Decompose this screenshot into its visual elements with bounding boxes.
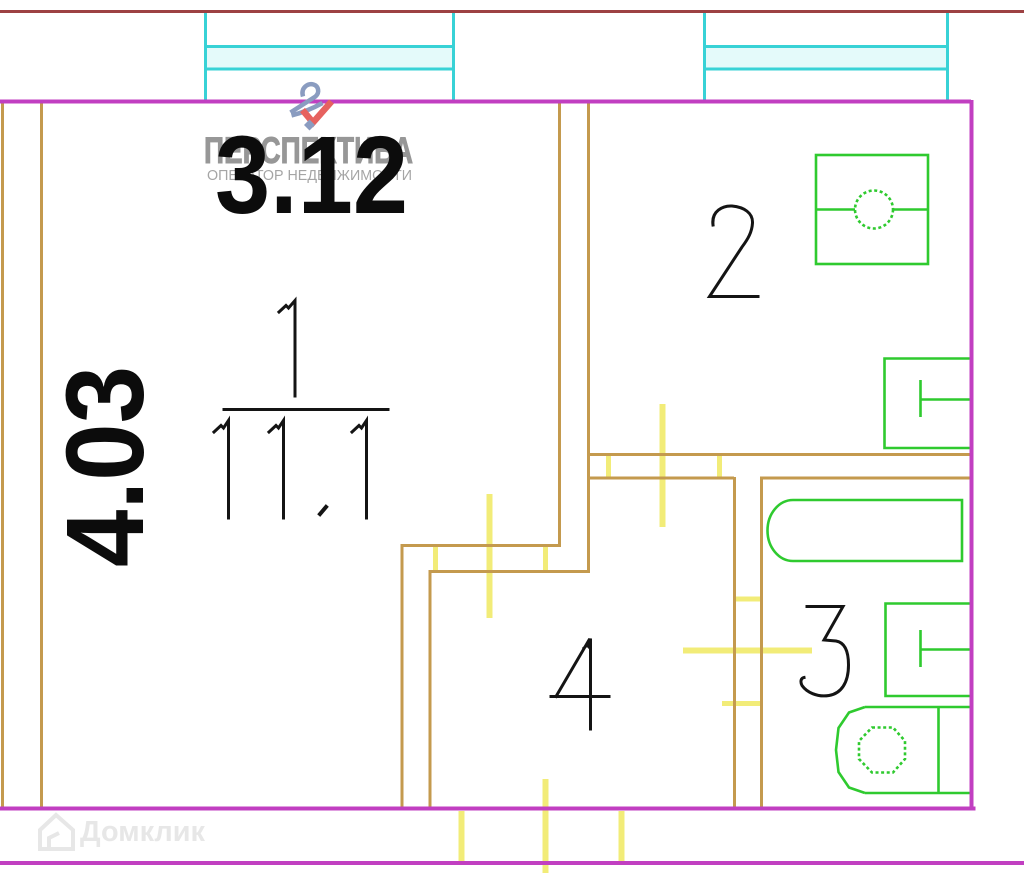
window1 glass fill [206, 48, 453, 68]
window1 pane line upper [205, 45, 454, 48]
door leaf kitchen [660, 404, 666, 527]
building bottom line [0, 861, 1024, 865]
stove burner circle [855, 191, 893, 229]
kitchen sink faucet [921, 380, 973, 417]
entrance tick left [459, 811, 465, 863]
room1-hall wall lower line [429, 570, 590, 573]
svg-text:Домклик: Домклик [80, 816, 205, 848]
node room4 numeral 4 [551, 639, 609, 730]
room number digits [214, 206, 849, 729]
kitchen bottom wall lower line left [587, 477, 734, 480]
svg-text:4.03: 4.03 [44, 366, 167, 567]
entrance leaf [543, 779, 549, 873]
stove square [816, 155, 928, 264]
apartment top wall [0, 100, 971, 104]
node room1 numeral 1 [279, 301, 295, 397]
interior tan walls [3, 103, 971, 810]
hall left wall inner line [429, 570, 432, 810]
window1 left jamb [204, 13, 207, 101]
room1 area decimal point [320, 507, 326, 514]
room1 area 11.1 third 1 [352, 421, 367, 519]
window2 pane line upper [704, 45, 948, 48]
window2 left jamb [703, 13, 706, 101]
hall-bathroom wall right line [760, 477, 763, 810]
outer red building line [0, 10, 1024, 13]
watermark domclick icon [40, 815, 73, 849]
wire left wall inner line [40, 103, 43, 810]
room1-hall wall upper line [401, 544, 561, 547]
room1 area 11.1 second 1 [269, 421, 284, 519]
window1 right jamb [452, 13, 455, 101]
bathtub [768, 500, 963, 561]
door tick bathroom top [733, 597, 762, 602]
toilet bowl octagon [859, 728, 905, 773]
kitchen bottom wall upper line [587, 453, 970, 456]
entrance tick right [619, 811, 625, 863]
svg-text:3.12: 3.12 [215, 114, 408, 237]
apartment right wall [970, 100, 974, 810]
kitchen sink outline [885, 359, 973, 449]
door tick bathroom bottom [722, 701, 762, 706]
hall left wall outer line [401, 544, 404, 810]
node room3 numeral 3 [801, 607, 849, 696]
window2 right jamb [946, 13, 949, 101]
door tick room1 right [543, 544, 548, 572]
door tick room1 left [433, 544, 438, 572]
door leaf room1 [487, 494, 493, 618]
room1 area 11.1 first 1 [214, 421, 229, 519]
wire left wall outer line [1, 103, 4, 810]
bathroom sink faucet [921, 630, 973, 667]
hall-bathroom wall left line [733, 477, 736, 810]
cyan windows [205, 13, 948, 101]
door leaf bathroom [683, 648, 812, 654]
node room2 numeral 2 [710, 206, 759, 297]
door tick kitchen left [606, 453, 611, 479]
window2 glass fill [705, 48, 947, 68]
window1 pane line lower [205, 68, 454, 71]
room1 fraction bar [224, 408, 388, 411]
stove middle line left [816, 208, 855, 211]
watermark logo perspektiva [291, 84, 332, 130]
kitchen bottom wall lower line right [760, 477, 970, 480]
green fixtures [768, 155, 973, 793]
apartment bottom wall [0, 807, 976, 811]
yellow door marks group [436, 404, 813, 873]
window2 pane line lower [704, 68, 948, 71]
toilet divider [937, 707, 940, 793]
door tick kitchen right [717, 453, 722, 479]
stove middle line right [893, 208, 928, 211]
wall room1-room2 left line [558, 103, 561, 546]
bathroom sink outline [886, 604, 973, 697]
wall room1-room2 right line [587, 103, 590, 572]
toilet tank outline [836, 707, 971, 793]
